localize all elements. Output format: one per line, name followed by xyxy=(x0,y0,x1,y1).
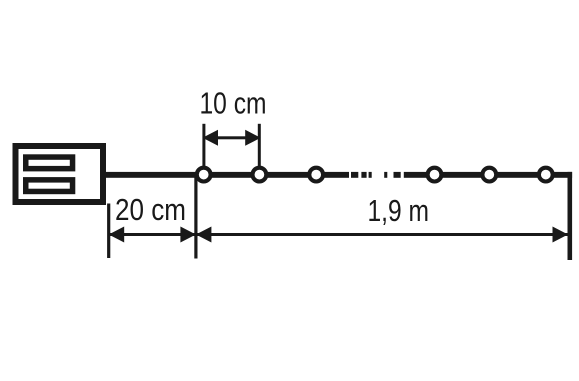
slot 1 xyxy=(26,157,73,169)
lamp 1 xyxy=(197,168,211,182)
wire dash xyxy=(361,172,366,178)
arrowhead 1,9m left xyxy=(196,227,212,243)
controller box xyxy=(16,146,104,202)
lamp 3 xyxy=(309,168,323,182)
wire dash xyxy=(394,172,401,178)
extension line left (box) xyxy=(107,204,110,259)
lamp 2 xyxy=(253,168,267,182)
extension line 10cm left xyxy=(202,124,205,166)
svg-text:1,9 m: 1,9 m xyxy=(368,193,430,228)
wire xyxy=(106,172,349,178)
lamp 5 xyxy=(482,168,496,182)
wire dash xyxy=(369,172,372,178)
svg-text:20 cm: 20 cm xyxy=(115,192,186,227)
extension line middle xyxy=(194,177,197,259)
arrowhead 10cm left xyxy=(203,130,219,146)
dimension line 20cm xyxy=(110,233,196,236)
wire xyxy=(404,172,572,178)
svg-text:10 cm: 10 cm xyxy=(200,86,267,121)
lamp 4 xyxy=(428,168,442,182)
arrowhead 20cm right xyxy=(180,227,196,243)
wire dash xyxy=(351,172,358,178)
dimension line 10cm xyxy=(210,136,253,139)
arrowhead 1,9m right xyxy=(553,227,569,243)
arrowhead 20cm left xyxy=(109,227,125,243)
arrowhead 10cm right xyxy=(245,130,261,146)
extension line 10cm right xyxy=(258,124,261,166)
wire dash xyxy=(384,172,387,178)
dimension line 1,9m xyxy=(196,233,568,236)
wire xyxy=(568,172,573,260)
slot 2 xyxy=(26,180,73,192)
lamp 6 xyxy=(539,168,553,182)
